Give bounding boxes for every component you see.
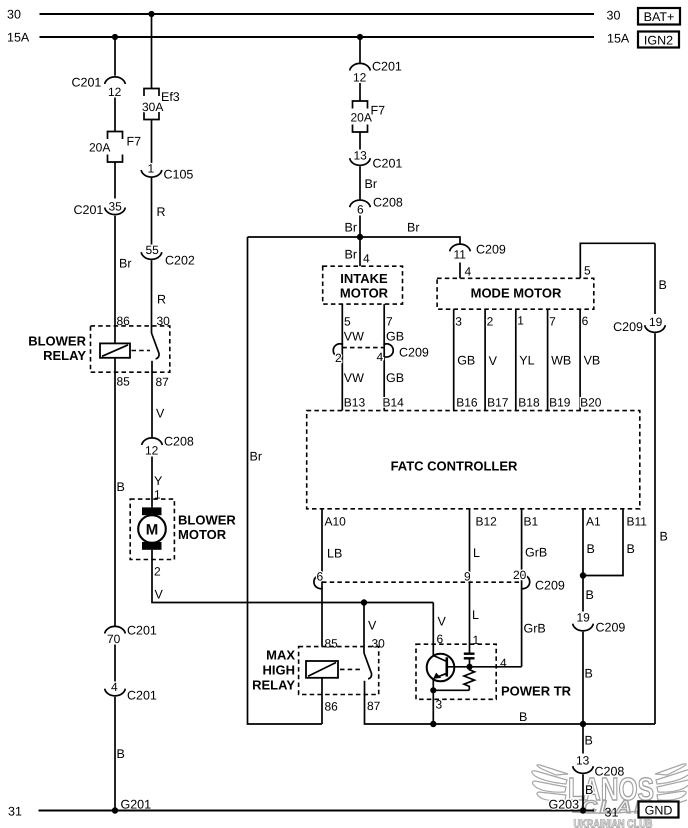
svg-text:C209: C209 xyxy=(476,243,506,257)
svg-text:VW: VW xyxy=(344,330,364,344)
svg-text:4: 4 xyxy=(111,680,118,694)
relay switch blade xyxy=(152,333,160,359)
svg-text:VW: VW xyxy=(344,371,364,385)
wire F7 to C201-13 xyxy=(359,132,361,150)
wire 12 to F7 xyxy=(114,98,116,132)
svg-text:MOTOR: MOTOR xyxy=(340,286,389,301)
svg-text:6: 6 xyxy=(317,570,324,584)
connector C201 pin 4 xyxy=(105,680,157,703)
svg-text:C202: C202 xyxy=(165,254,195,268)
svg-text:C201: C201 xyxy=(127,624,157,638)
wire 85 down to C201-70 xyxy=(114,358,116,626)
resistor R1 xyxy=(464,667,475,691)
svg-text:Br: Br xyxy=(345,248,358,262)
wire junction down to intake motor xyxy=(359,237,361,266)
svg-text:GB: GB xyxy=(386,371,404,385)
blower relay label xyxy=(28,334,86,364)
fuse F7 20A (left) xyxy=(89,132,141,163)
wire 35 to blower relay 86 xyxy=(114,216,116,344)
svg-text:86: 86 xyxy=(325,700,339,714)
svg-text:G203: G203 xyxy=(549,798,580,812)
fuse F7 20A (right) xyxy=(351,101,386,132)
svg-text:C209: C209 xyxy=(535,579,565,593)
wire 4 to ground G201 xyxy=(114,697,116,811)
wire F7 to C201-35 xyxy=(114,162,116,199)
wire base 4 to GrB xyxy=(470,666,522,668)
wire mode pin 7 to B19 xyxy=(547,309,549,410)
wire B11 down and left to A1 xyxy=(583,509,623,576)
blower motor box xyxy=(130,499,174,559)
svg-text:B16: B16 xyxy=(456,396,478,410)
wire resistor to emitter xyxy=(433,689,469,691)
svg-text:31: 31 xyxy=(8,805,22,819)
svg-text:VB: VB xyxy=(584,354,601,368)
wire mode pin 2 to B17 xyxy=(484,309,486,410)
connector C201 pin 13 xyxy=(350,149,403,171)
fuse Ef3 30A xyxy=(142,89,180,120)
svg-text:B19: B19 xyxy=(549,396,571,410)
connector C208 pin 13 xyxy=(573,754,625,779)
wire 70 to C201-4 xyxy=(114,645,116,682)
svg-text:1: 1 xyxy=(148,162,155,176)
wire V junction to max relay 30 xyxy=(363,603,365,654)
svg-text:GB: GB xyxy=(386,330,404,344)
svg-text:BLOWER: BLOWER xyxy=(28,334,86,349)
svg-text:V: V xyxy=(489,354,498,368)
connector C105 pin 1 xyxy=(141,162,193,182)
svg-text:V: V xyxy=(156,407,165,421)
ground node G201 xyxy=(112,798,151,814)
svg-text:1: 1 xyxy=(517,314,524,328)
svg-text:GrB: GrB xyxy=(525,546,547,560)
svg-text:Br: Br xyxy=(119,257,132,271)
wire junction right to C209-11 xyxy=(360,237,460,244)
wire 3 to ground net xyxy=(432,690,434,724)
wire Br drop down to max relay 86 xyxy=(248,237,323,724)
junction node A1/B11 xyxy=(580,572,586,578)
wire 55 to relay 30 xyxy=(151,260,153,333)
svg-text:B: B xyxy=(117,747,125,761)
svg-text:B: B xyxy=(660,530,668,544)
svg-text:30: 30 xyxy=(607,9,621,23)
svg-text:4: 4 xyxy=(465,265,472,279)
relay link dashed xyxy=(340,668,361,670)
connector C209 pin 19 (top) xyxy=(613,315,665,334)
wire mode pin 1 to B18 xyxy=(515,309,517,410)
svg-text:YL: YL xyxy=(519,354,534,368)
wire B12 to power TR 1 xyxy=(469,509,471,653)
svg-text:12: 12 xyxy=(108,85,122,99)
svg-text:2: 2 xyxy=(487,315,494,329)
wire 6 to junction xyxy=(359,216,361,238)
svg-text:30A: 30A xyxy=(142,100,163,114)
svg-text:3: 3 xyxy=(436,698,443,712)
svg-text:B11: B11 xyxy=(627,515,648,529)
connector C201 pin 35 xyxy=(74,200,126,218)
svg-text:Br: Br xyxy=(250,450,263,464)
node IGN2 box xyxy=(638,32,679,48)
svg-text:85: 85 xyxy=(117,375,131,389)
svg-text:3: 3 xyxy=(455,315,462,329)
svg-text:C201: C201 xyxy=(127,689,157,703)
wire right line down to C209-19 xyxy=(654,243,656,314)
svg-text:POWER TR: POWER TR xyxy=(501,684,572,699)
node BAT+ box xyxy=(638,8,680,25)
connector C208 pin 6 xyxy=(350,196,403,217)
svg-text:13: 13 xyxy=(354,149,368,163)
wire 87 to ground net xyxy=(365,681,656,724)
FATC controller U1 box xyxy=(307,411,640,509)
svg-text:A1: A1 xyxy=(586,515,601,529)
svg-text:20A: 20A xyxy=(89,141,110,155)
svg-text:HIGH: HIGH xyxy=(263,663,296,678)
svg-text:87: 87 xyxy=(367,699,381,713)
svg-text:GB: GB xyxy=(457,354,475,368)
svg-text:FATC CONTROLLER: FATC CONTROLLER xyxy=(391,459,518,474)
svg-text:Ef3: Ef3 xyxy=(161,90,180,104)
relay switch blade xyxy=(364,653,372,679)
svg-text:C209: C209 xyxy=(596,621,626,635)
svg-text:20: 20 xyxy=(513,568,527,582)
svg-text:13: 13 xyxy=(576,754,590,768)
svg-text:20A: 20A xyxy=(351,111,372,125)
svg-text:MODE MOTOR: MODE MOTOR xyxy=(471,286,562,301)
junction node V branch xyxy=(361,599,367,605)
svg-text:6: 6 xyxy=(357,203,364,217)
wire mode 5 up and right xyxy=(580,243,655,278)
svg-text:MOTOR: MOTOR xyxy=(178,527,227,542)
svg-text:35: 35 xyxy=(109,200,123,214)
connector C209 pin 19 (lower) xyxy=(573,611,626,635)
power TR box xyxy=(416,644,496,699)
junction dot bus15A/L1 xyxy=(112,34,118,40)
connector C209 pin 11 xyxy=(450,243,506,262)
svg-text:B17: B17 xyxy=(487,396,509,410)
svg-text:19: 19 xyxy=(577,611,591,625)
connector C209 pins 2/4 xyxy=(333,344,429,365)
svg-text:C208: C208 xyxy=(373,196,403,210)
svg-text:B: B xyxy=(585,667,593,681)
wire 11 to mode motor 4 xyxy=(459,263,461,279)
relay link dashed xyxy=(132,350,151,352)
connector C201 pin 12 xyxy=(72,76,126,100)
svg-text:30: 30 xyxy=(157,314,171,328)
svg-text:F7: F7 xyxy=(371,104,386,118)
svg-text:6: 6 xyxy=(437,632,444,646)
svg-text:B: B xyxy=(117,480,125,494)
relay coil K1 xyxy=(100,343,130,357)
svg-text:C201: C201 xyxy=(72,76,102,90)
svg-text:19: 19 xyxy=(649,315,663,329)
wire B1 to C209-20 xyxy=(521,509,523,667)
svg-text:C105: C105 xyxy=(164,168,194,182)
svg-text:5: 5 xyxy=(584,264,591,278)
svg-text:B: B xyxy=(659,278,667,292)
svg-text:R: R xyxy=(157,293,166,307)
svg-text:70: 70 xyxy=(107,632,121,646)
svg-text:B: B xyxy=(585,734,593,748)
svg-text:R: R xyxy=(157,205,166,219)
svg-text:C208: C208 xyxy=(595,765,625,779)
wire motor 2 down and right to power TR xyxy=(152,550,433,603)
transistor Q1 xyxy=(427,603,470,691)
junction node pin3/ground xyxy=(430,721,436,727)
blower motor M1 xyxy=(138,507,166,549)
svg-text:30: 30 xyxy=(7,8,21,22)
wire 13 to C208-6 xyxy=(359,166,361,199)
max high relay box xyxy=(299,647,379,695)
svg-text:UKRAINIAN CLUB: UKRAINIAN CLUB xyxy=(574,819,653,828)
relay coil K2 xyxy=(306,661,338,678)
junction node emitter xyxy=(430,687,436,693)
svg-text:B18: B18 xyxy=(518,396,540,410)
svg-text:GND: GND xyxy=(645,804,673,818)
svg-text:BAT+: BAT+ xyxy=(644,10,675,24)
svg-text:12: 12 xyxy=(145,444,159,458)
svg-text:2: 2 xyxy=(335,351,342,365)
junction node base xyxy=(466,664,472,670)
wire A1 down xyxy=(582,509,584,576)
svg-text:B13: B13 xyxy=(344,396,366,410)
wire ground to C208-13 xyxy=(582,724,584,754)
svg-text:F7: F7 xyxy=(127,135,142,149)
junction node Br xyxy=(357,234,363,240)
svg-text:12: 12 xyxy=(353,71,367,85)
junction dot bus30/L2 xyxy=(148,11,154,17)
svg-text:B: B xyxy=(585,783,593,797)
svg-text:C209: C209 xyxy=(613,320,643,334)
svg-text:9: 9 xyxy=(464,570,471,584)
wire coil 86 down to Br net xyxy=(321,678,323,724)
wire mode pin 6 to B20 xyxy=(579,309,581,410)
svg-text:4: 4 xyxy=(377,350,384,364)
wire 87 to C208-12 xyxy=(151,361,153,438)
wire Ef3 to C105-1 xyxy=(151,120,153,164)
svg-text:31: 31 xyxy=(605,806,619,820)
connector C201 pin 70 xyxy=(105,624,157,647)
svg-text:LB: LB xyxy=(327,547,342,561)
svg-text:RELAY: RELAY xyxy=(252,678,295,693)
svg-text:4: 4 xyxy=(363,252,370,266)
wire junction left to Br drop xyxy=(248,236,361,238)
svg-text:2: 2 xyxy=(154,565,161,579)
svg-text:V: V xyxy=(155,588,164,602)
blower motor label xyxy=(178,513,236,543)
svg-text:87: 87 xyxy=(156,375,170,389)
svg-text:15A: 15A xyxy=(7,31,30,45)
wire L1 15A to C201-12 xyxy=(114,37,116,76)
wire A1 to C209-19 xyxy=(582,576,584,612)
svg-text:55: 55 xyxy=(146,243,160,257)
svg-text:11: 11 xyxy=(454,248,467,262)
wire 12 to blower motor xyxy=(151,457,153,508)
wire L2 bus30 to Ef3 xyxy=(151,14,153,89)
svg-text:C201: C201 xyxy=(74,203,104,217)
connector C208 pin 12 xyxy=(142,435,194,458)
connector C202 pin 55 xyxy=(141,243,195,268)
svg-text:B1: B1 xyxy=(524,515,539,529)
wire bus 15A xyxy=(40,36,595,38)
svg-text:Br: Br xyxy=(345,221,358,235)
svg-text:B: B xyxy=(587,542,595,556)
svg-text:7: 7 xyxy=(549,315,556,329)
svg-text:B: B xyxy=(519,710,527,724)
svg-text:A10: A10 xyxy=(325,515,347,529)
wire intake 7 to C209-4 xyxy=(383,304,385,411)
capacitor C1 xyxy=(464,654,475,667)
svg-text:BLOWER: BLOWER xyxy=(178,513,236,528)
svg-text:B: B xyxy=(627,542,635,556)
wire 12 to F7 xyxy=(359,83,361,101)
ground node G203 xyxy=(549,798,587,814)
svg-text:B20: B20 xyxy=(580,396,602,410)
svg-text:C208: C208 xyxy=(164,435,194,449)
svg-text:L: L xyxy=(473,546,480,560)
svg-text:INTAKE: INTAKE xyxy=(340,271,388,286)
svg-text:C201: C201 xyxy=(372,60,402,74)
svg-text:7: 7 xyxy=(386,315,393,329)
svg-text:1: 1 xyxy=(473,633,480,647)
wire bus 31 xyxy=(39,810,595,812)
svg-text:RELAY: RELAY xyxy=(43,348,86,363)
node GND box xyxy=(639,802,679,818)
wire 13 to ground G203 xyxy=(582,774,584,810)
svg-text:6: 6 xyxy=(582,314,589,328)
svg-text:Br: Br xyxy=(365,177,378,191)
wire bus 30 xyxy=(40,13,595,15)
svg-text:B: B xyxy=(586,588,594,602)
wire mode pin 3 to B16 xyxy=(453,309,455,410)
svg-text:85: 85 xyxy=(325,637,339,651)
svg-text:C209: C209 xyxy=(399,346,429,360)
watermark Lanos Clan logo xyxy=(532,764,688,828)
svg-text:30: 30 xyxy=(372,637,386,651)
blower relay box xyxy=(91,326,170,372)
wire 19 to ground junction xyxy=(582,632,584,724)
svg-text:MAX: MAX xyxy=(266,648,295,663)
wire A10 to C209-6 xyxy=(321,509,323,647)
intake motor box xyxy=(323,266,403,304)
wire 19 down to ground net xyxy=(654,333,656,724)
junction node B/ground xyxy=(580,721,586,727)
svg-text:15A: 15A xyxy=(607,32,630,46)
intake motor label xyxy=(340,271,389,301)
svg-text:WB: WB xyxy=(551,354,571,368)
wire 1 to C202-55 xyxy=(151,178,153,245)
svg-text:M: M xyxy=(146,522,159,539)
svg-text:G201: G201 xyxy=(121,798,152,812)
svg-text:L: L xyxy=(472,608,479,622)
connector C209 pins 6/9/20 xyxy=(314,568,565,593)
max high relay label xyxy=(252,648,295,693)
junction dot bus15A/L3 xyxy=(357,34,363,40)
wire intake 5 to C209-2 xyxy=(341,304,343,411)
svg-text:B14: B14 xyxy=(383,396,405,410)
svg-text:Y: Y xyxy=(154,474,163,488)
wire L3 15A to C201-12 xyxy=(359,37,361,63)
svg-text:C201: C201 xyxy=(373,157,403,171)
svg-text:GrB: GrB xyxy=(524,622,546,636)
svg-text:V: V xyxy=(368,619,377,633)
svg-text:5: 5 xyxy=(344,315,351,329)
svg-text:Br: Br xyxy=(407,221,420,235)
mode motor box xyxy=(437,278,594,309)
svg-text:4: 4 xyxy=(500,656,507,670)
svg-text:B12: B12 xyxy=(476,515,498,529)
svg-text:V: V xyxy=(438,615,447,629)
svg-text:IGN2: IGN2 xyxy=(644,34,673,48)
connector C201 pin 12 (right) xyxy=(350,60,402,85)
